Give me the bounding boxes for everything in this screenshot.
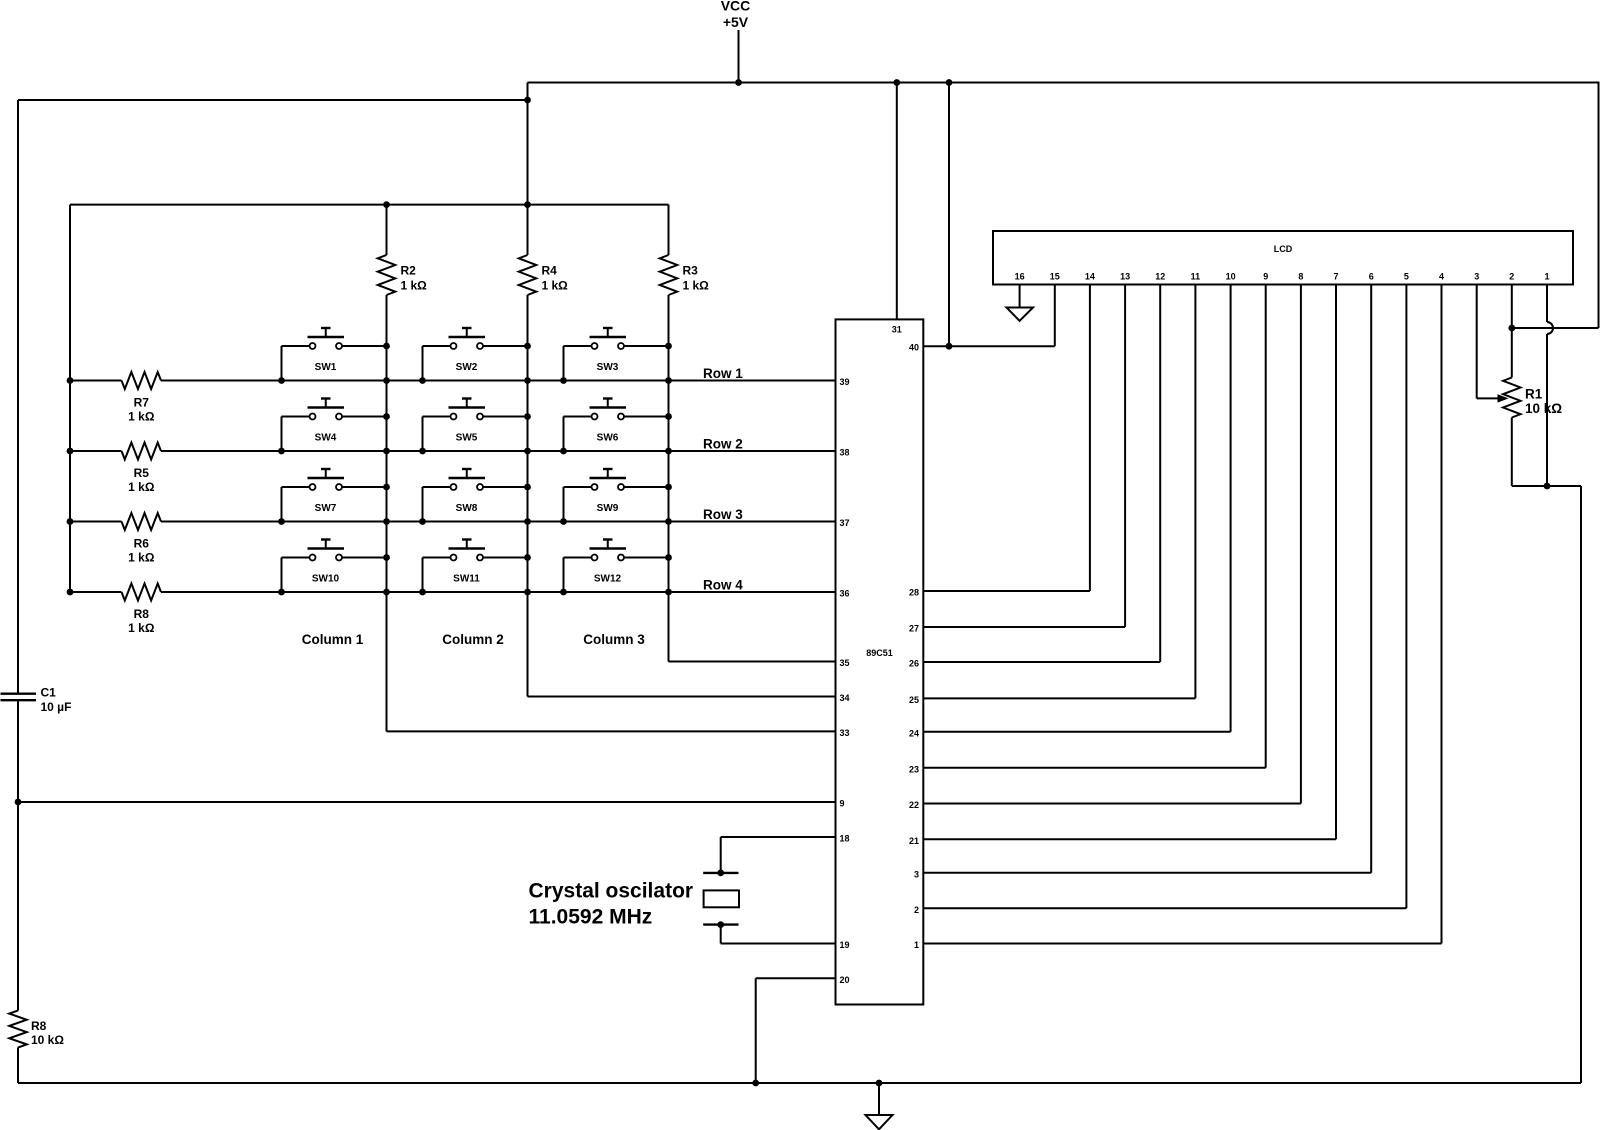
junction column 3 row 1	[665, 377, 672, 384]
wire pin40 to LCD pin15	[923, 345, 1055, 347]
svg-text:2: 2	[914, 905, 919, 915]
svg-text:Column 1: Column 1	[302, 632, 364, 647]
junction SW2 left on row	[419, 377, 426, 384]
junction SW9 left on row	[560, 518, 567, 525]
svg-text:SW6: SW6	[597, 433, 619, 444]
wire chip pin 24 to LCD pin 10	[923, 731, 1230, 733]
svg-text:3: 3	[1474, 272, 1479, 282]
junction SW12 right on column	[665, 554, 672, 561]
wire VCC to LCD pin2 horizontal	[1512, 327, 1599, 329]
wire row 2 line	[70, 450, 122, 452]
wire chip pin 27 to LCD pin 13	[923, 626, 1125, 628]
svg-text:31: 31	[892, 325, 902, 335]
wire chip pin 21 to LCD pin 7	[923, 838, 1336, 840]
junction column 1 row 3	[383, 518, 390, 525]
ground symbol at LCD pin16	[1007, 308, 1034, 321]
wire row 4 line	[70, 591, 122, 593]
svg-text:27: 27	[909, 624, 919, 634]
wire LCD pin16 to ground	[1019, 285, 1021, 308]
switch SW11	[423, 540, 528, 593]
wire R1 bottom	[1511, 418, 1513, 487]
wire R8 to bottom rail	[17, 1048, 19, 1084]
wire top VCC rail	[528, 82, 1599, 84]
junction SW11 right on column	[524, 554, 531, 561]
svg-text:11: 11	[1191, 272, 1201, 282]
svg-text:1 kΩ: 1 kΩ	[128, 621, 155, 635]
svg-text:SW2: SW2	[456, 362, 478, 373]
crystal Y1 bottom plate	[703, 923, 738, 925]
junction SW9 right on column	[665, 484, 672, 491]
wire column 3 to chip	[669, 661, 836, 663]
svg-text:C1: C1	[41, 685, 57, 699]
switch SW4	[282, 399, 387, 452]
wire bottom ground rail	[18, 1082, 1581, 1084]
junction crystal bottom	[717, 921, 724, 928]
junction SW4 right on column	[383, 413, 390, 420]
switch SW6	[564, 399, 669, 452]
junction SW7 left on row	[278, 518, 285, 525]
svg-text:33: 33	[840, 728, 850, 738]
svg-text:1 kΩ: 1 kΩ	[683, 279, 710, 293]
switch SW12	[564, 540, 669, 593]
wire VCC drop to pin40 net	[948, 83, 950, 347]
wire column 1 vertical upper	[386, 205, 388, 255]
resistor R6 1k	[122, 513, 161, 530]
junction SW11 left on row	[419, 589, 426, 596]
switch SW3	[564, 328, 669, 381]
switch SW9	[564, 469, 669, 522]
wire left rail upper	[17, 100, 19, 694]
switch SW2	[423, 328, 528, 381]
wire chip pin 3 to LCD pin 6	[923, 872, 1371, 874]
svg-text:11.0592 MHz: 11.0592 MHz	[529, 906, 653, 929]
junction column 2 row 3	[524, 518, 531, 525]
svg-text:5: 5	[1404, 272, 1409, 282]
switch SW5	[423, 399, 528, 452]
wire pin9 horizontal	[18, 801, 836, 803]
junction SW3 left on row	[560, 377, 567, 384]
junction left rail to pin9	[15, 799, 22, 806]
svg-text:7: 7	[1333, 272, 1338, 282]
wire chip pin 26 to LCD pin 12	[923, 661, 1160, 663]
svg-text:Row 4: Row 4	[703, 578, 743, 593]
svg-text:16: 16	[1015, 272, 1025, 282]
junction VCC on top rail	[735, 79, 742, 86]
svg-text:36: 36	[840, 589, 850, 599]
wire left rail lower	[17, 700, 19, 1010]
junction SW1 left on row	[278, 377, 285, 384]
wire column 3 vertical upper	[668, 205, 670, 255]
wire column 2 to chip	[528, 696, 836, 698]
wire column 2 vertical upper	[527, 205, 529, 255]
svg-text:8: 8	[1298, 272, 1303, 282]
junction SW6 left on row	[560, 448, 567, 455]
switch SW1	[282, 328, 387, 381]
wire chip pin 1 to LCD pin 4	[923, 943, 1441, 945]
junction keypad rail col1	[383, 201, 390, 208]
svg-text:6: 6	[1369, 272, 1374, 282]
svg-text:SW3: SW3	[597, 362, 619, 373]
svg-text:SW1: SW1	[315, 362, 337, 373]
wire LCD pin1 down with hop	[1546, 285, 1548, 323]
svg-text:LCD: LCD	[1274, 244, 1293, 254]
switch SW8	[423, 469, 528, 522]
wire column 2 vertical lower	[527, 295, 529, 697]
LCD module	[993, 231, 1573, 285]
svg-text:1 kΩ: 1 kΩ	[128, 410, 155, 424]
junction column 3 row 4	[665, 589, 672, 596]
svg-text:3: 3	[914, 870, 919, 880]
junction column 2 row 2	[524, 448, 531, 455]
junction pin40 riser on VCC rail	[946, 79, 953, 86]
junction keypad left vertical row 3	[67, 518, 74, 525]
svg-text:10 µF: 10 µF	[41, 700, 72, 714]
resistor R5 1k	[122, 443, 161, 460]
resistor R2 1k pullup	[378, 255, 396, 295]
junction upper-left branch on column2 riser	[524, 97, 531, 104]
svg-text:SW12: SW12	[594, 574, 622, 585]
svg-text:R7: R7	[134, 396, 150, 410]
svg-text:SW4: SW4	[315, 433, 337, 444]
svg-text:89C51: 89C51	[866, 648, 893, 658]
junction SW3 right on column	[665, 343, 672, 350]
svg-text:28: 28	[909, 588, 919, 598]
wire right drop to ground rail	[1580, 486, 1582, 1083]
junction SW10 left on row	[278, 589, 285, 596]
svg-text:Column 2: Column 2	[442, 632, 504, 647]
wire chip pin 25 to LCD pin 11	[923, 697, 1195, 699]
wire LCD pin2 down	[1511, 285, 1513, 378]
svg-text:25: 25	[909, 695, 919, 705]
junction ground stem	[876, 1080, 883, 1087]
junction SW8 right on column	[524, 484, 531, 491]
svg-text:SW9: SW9	[597, 503, 619, 514]
junction SW5 left on row	[419, 448, 426, 455]
junction column 3 row 2	[665, 448, 672, 455]
svg-text:1: 1	[1544, 272, 1549, 282]
wire pin18 to crystal	[721, 836, 836, 838]
junction VCC-LCD2	[1508, 325, 1515, 332]
resistor R4 1k pullup	[519, 255, 537, 295]
junction SW7 right on column	[383, 484, 390, 491]
switch SW10	[282, 540, 387, 593]
svg-text:Crystal oscilator: Crystal oscilator	[529, 880, 694, 903]
svg-text:15: 15	[1050, 272, 1060, 282]
wire column 3 vertical lower	[668, 295, 670, 662]
wire chip pin 28 to LCD pin 14	[923, 590, 1090, 592]
svg-text:1 kΩ: 1 kΩ	[542, 279, 569, 293]
svg-text:Row 3: Row 3	[703, 507, 743, 522]
junction SW2 right on column	[524, 343, 531, 350]
junction crystal top	[717, 870, 724, 877]
svg-text:20: 20	[840, 975, 850, 985]
ground symbol bottom	[878, 1083, 880, 1115]
svg-text:R8: R8	[134, 607, 150, 621]
svg-text:18: 18	[840, 834, 850, 844]
wire chip pin 2 to LCD pin 5	[923, 907, 1406, 909]
svg-text:9: 9	[1263, 272, 1268, 282]
wire crystal to pin19	[720, 925, 722, 944]
svg-text:40: 40	[909, 343, 919, 353]
svg-text:SW8: SW8	[456, 503, 478, 514]
resistor R3 1k pullup	[660, 255, 678, 295]
svg-text:34: 34	[840, 693, 850, 703]
potentiometer R1 10k	[1503, 378, 1521, 418]
keypad left vertical	[69, 205, 71, 592]
svg-text:1 kΩ: 1 kΩ	[128, 480, 155, 494]
junction SW6 right on column	[665, 413, 672, 420]
junction column 3 row 3	[665, 518, 672, 525]
svg-text:4: 4	[1439, 272, 1444, 282]
junction pin40 net	[946, 343, 953, 350]
IC U1 89C51	[836, 319, 924, 1004]
wire chip pin 22 to LCD pin 8	[923, 803, 1301, 805]
svg-text:SW11: SW11	[453, 574, 480, 585]
junction pin31 on VCC rail	[893, 79, 900, 86]
svg-text:35: 35	[840, 658, 850, 668]
svg-text:10 kΩ: 10 kΩ	[31, 1033, 64, 1047]
svg-text:R2: R2	[401, 264, 417, 278]
junction SW8 left on row	[419, 518, 426, 525]
crystal Y1 body	[704, 890, 739, 907]
resistor R8 1k	[122, 584, 161, 601]
svg-text:23: 23	[909, 765, 919, 775]
wire upper-left branch	[18, 99, 528, 101]
svg-text:VCC: VCC	[721, 0, 751, 14]
wire column 1 to chip	[387, 730, 836, 732]
crystal Y1 top plate	[703, 872, 738, 874]
junction SW10 right on column	[383, 554, 390, 561]
svg-text:R8: R8	[31, 1019, 47, 1033]
svg-text:38: 38	[840, 448, 850, 458]
svg-text:26: 26	[909, 659, 919, 669]
junction column 2 row 4	[524, 589, 531, 596]
svg-text:SW10: SW10	[312, 574, 340, 585]
svg-text:39: 39	[840, 377, 850, 387]
capacitor C1	[1, 693, 37, 695]
svg-text:19: 19	[840, 940, 850, 950]
junction column2 riser on keypad rail	[524, 201, 531, 208]
svg-text:12: 12	[1155, 272, 1165, 282]
svg-text:R4: R4	[542, 264, 558, 278]
svg-text:21: 21	[909, 836, 919, 846]
wire column 1 vertical lower	[386, 295, 388, 731]
switch SW7	[282, 469, 387, 522]
junction keypad left vertical row 1	[67, 377, 74, 384]
svg-text:9: 9	[840, 799, 845, 809]
svg-text:+5V: +5V	[723, 14, 749, 30]
resistor R7 1k	[122, 372, 161, 389]
svg-text:24: 24	[909, 729, 919, 739]
potentiometer R1 wiper arrow	[1498, 394, 1509, 402]
svg-text:2: 2	[1509, 272, 1514, 282]
wire VCC stem	[738, 30, 740, 83]
junction R1 bottom with LCD pin1 wire	[1544, 483, 1551, 490]
svg-text:1 kΩ: 1 kΩ	[128, 551, 155, 565]
svg-text:10: 10	[1226, 272, 1236, 282]
junction SW12 left on row	[560, 589, 567, 596]
svg-text:10 kΩ: 10 kΩ	[1525, 401, 1562, 416]
junction SW4 left on row	[278, 448, 285, 455]
svg-text:Row 1: Row 1	[703, 366, 743, 381]
wire row 3 line	[70, 521, 122, 523]
wire pin20 to ground rail	[756, 977, 836, 979]
svg-text:1: 1	[914, 940, 919, 950]
resistor R8 (10k pulldown)	[9, 1011, 27, 1048]
junction SW1 right on column	[383, 343, 390, 350]
svg-text:14: 14	[1085, 272, 1095, 282]
junction keypad left vertical row 4	[67, 589, 74, 596]
svg-text:R5: R5	[134, 466, 150, 480]
svg-text:R6: R6	[134, 537, 150, 551]
junction pin20 on ground rail	[752, 1080, 759, 1087]
junction column 2 row 1	[524, 377, 531, 384]
svg-text:R3: R3	[683, 264, 699, 278]
wire LCD pin3 to wiper	[1476, 285, 1478, 399]
keypad top rail	[70, 204, 669, 206]
junction column 1 row 1	[383, 377, 390, 384]
wire row 1 line	[70, 380, 122, 382]
wire column2 riser	[527, 83, 529, 256]
junction SW5 right on column	[524, 413, 531, 420]
svg-text:37: 37	[840, 518, 850, 528]
svg-text:13: 13	[1120, 272, 1130, 282]
junction keypad left vertical row 2	[67, 448, 74, 455]
svg-text:Row 2: Row 2	[703, 437, 743, 452]
svg-text:22: 22	[909, 800, 919, 810]
svg-text:SW7: SW7	[315, 503, 337, 514]
svg-text:1 kΩ: 1 kΩ	[401, 279, 428, 293]
junction column 1 row 4	[383, 589, 390, 596]
junction column 1 row 2	[383, 448, 390, 455]
wire pin31 stem	[896, 83, 898, 320]
svg-text:R1: R1	[1525, 387, 1543, 402]
wire right edge drop	[1598, 82, 1600, 329]
svg-text:SW5: SW5	[456, 433, 478, 444]
svg-text:Column 3: Column 3	[583, 632, 645, 647]
wire chip pin 23 to LCD pin 9	[923, 767, 1265, 769]
